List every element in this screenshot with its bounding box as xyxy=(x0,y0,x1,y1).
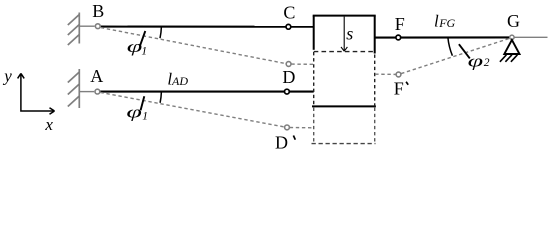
link block-F-G xyxy=(375,36,510,38)
svg-text:B: B xyxy=(92,1,104,21)
svg-text:φ: φ xyxy=(468,52,484,71)
svg-text:x: x xyxy=(44,115,53,134)
pivot C xyxy=(286,24,291,29)
dashed arm shifted block to F` xyxy=(375,73,396,75)
svg-text:φ: φ xyxy=(127,37,143,56)
dashed arm D` to shifted block xyxy=(290,127,314,129)
tick mark phi2 xyxy=(459,44,470,58)
tick mark phi1 bottom xyxy=(141,96,145,110)
dashed rotated link B-C` xyxy=(101,28,286,64)
svg-text:y: y xyxy=(2,67,12,86)
link A-D to slider block xyxy=(100,91,313,93)
svg-text:s: s xyxy=(346,24,353,44)
slider block dashed outline (shifted position) xyxy=(312,52,376,144)
stub link wall to B xyxy=(79,25,94,27)
pivot D xyxy=(285,89,290,94)
pivot F` (gray, shifted) xyxy=(396,72,401,77)
tick mark phi1 top xyxy=(140,31,145,45)
svg-text:1: 1 xyxy=(142,111,148,123)
pivot C` (gray, shifted) xyxy=(286,62,291,67)
dashed arm C` to shifted block xyxy=(291,63,313,65)
stub link wall to A xyxy=(79,91,94,93)
svg-text:1: 1 xyxy=(141,45,147,57)
angle arc phi2 at G xyxy=(448,38,453,56)
dashed rotated link A-D` xyxy=(100,92,284,127)
pivot B (gray) xyxy=(95,24,100,29)
angle arc phi1 at B xyxy=(160,27,161,39)
displacement arrow s xyxy=(341,17,347,52)
pivot A (gray) xyxy=(95,89,100,94)
pivot G (gray) xyxy=(510,35,514,39)
svg-text:D: D xyxy=(282,67,295,87)
fixed support wall top (for pivot B) xyxy=(68,13,80,46)
svg-text:F: F xyxy=(395,14,405,34)
ground pin support triangle at G xyxy=(504,40,519,54)
angle arc phi1 at A xyxy=(160,92,161,103)
svg-text:G: G xyxy=(507,11,520,31)
pivot F xyxy=(396,35,401,40)
ground hatching at G xyxy=(500,55,518,62)
pivot D` (gray, shifted) xyxy=(285,125,290,130)
coordinate axes x-y xyxy=(18,73,55,114)
gray reference line right of G xyxy=(514,36,547,38)
svg-text:A: A xyxy=(90,66,103,86)
link B-C to slider block xyxy=(101,26,314,28)
fixed support wall bottom (for pivot A) xyxy=(68,69,80,108)
prime tick of F` xyxy=(406,82,408,85)
prime tick of D` xyxy=(293,136,295,140)
dashed rotated link F`-G xyxy=(401,38,509,73)
slider block solid outline (original position) xyxy=(312,16,376,107)
svg-text:φ: φ xyxy=(126,103,142,122)
svg-text:F: F xyxy=(394,78,404,98)
svg-text:D: D xyxy=(275,133,288,153)
svg-text:C: C xyxy=(283,3,295,23)
svg-text:2: 2 xyxy=(484,57,490,69)
